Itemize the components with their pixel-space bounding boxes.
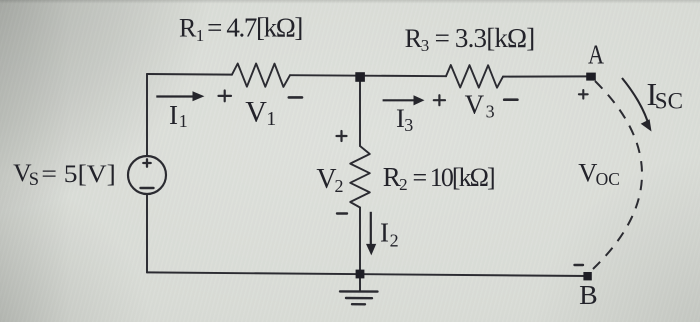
node junction top (R1/R3/R2) bbox=[355, 72, 365, 82]
label Isc bbox=[647, 76, 683, 114]
label Voc bbox=[578, 158, 620, 189]
dashed arc A to B bbox=[593, 81, 642, 269]
svg-text:3: 3 bbox=[421, 36, 430, 55]
resistor R1 bbox=[232, 64, 290, 87]
svg-text:I: I bbox=[380, 218, 389, 248]
V1 plus sign bbox=[219, 91, 232, 102]
svg-text:V: V bbox=[465, 90, 485, 120]
wire R2 branch upper bbox=[359, 77, 361, 147]
svg-text:= 3.3[kΩ]: = 3.3[kΩ] bbox=[435, 23, 536, 53]
voltage source VS circle bbox=[128, 156, 166, 194]
current arrow I1 bbox=[156, 91, 204, 101]
VS plus sign bbox=[143, 159, 150, 166]
current arrow I2 bbox=[366, 212, 376, 256]
svg-text:1: 1 bbox=[266, 108, 276, 130]
resistor R2 bbox=[350, 146, 370, 208]
svg-text:S: S bbox=[29, 170, 39, 190]
svg-text:I: I bbox=[169, 100, 178, 130]
wire R2 branch lower bbox=[359, 208, 361, 275]
label R1 = 4.7[kOhm] bbox=[179, 13, 303, 45]
wire top rail left bbox=[147, 73, 232, 76]
VS minus sign bbox=[141, 187, 154, 189]
wire left rail upper bbox=[146, 74, 148, 156]
node B minus sign bbox=[575, 264, 584, 266]
svg-text:SC: SC bbox=[655, 89, 683, 114]
resistor R3 bbox=[446, 65, 503, 88]
svg-text:= 4.7[kΩ]: = 4.7[kΩ] bbox=[207, 13, 303, 43]
label R3 = 3.3[kOhm] bbox=[405, 23, 536, 55]
ground bar 3 bbox=[352, 303, 365, 305]
ground bar 1 bbox=[340, 290, 378, 293]
svg-text:3: 3 bbox=[486, 102, 495, 122]
Isc arrow bbox=[622, 78, 652, 132]
wire top rail middle bbox=[290, 75, 446, 76]
svg-text:2: 2 bbox=[390, 231, 399, 251]
svg-text:= 10[kΩ]: = 10[kΩ] bbox=[413, 163, 496, 192]
ground bar 2 bbox=[346, 297, 372, 300]
wire bottom rail bbox=[147, 272, 588, 276]
wire top rail right bbox=[503, 75, 591, 77]
current arrow I3 bbox=[383, 95, 425, 105]
svg-text:1: 1 bbox=[179, 111, 188, 131]
label I2 bbox=[380, 218, 399, 251]
svg-text:B: B bbox=[579, 280, 598, 310]
svg-text:3: 3 bbox=[404, 115, 413, 135]
node A terminal bbox=[586, 73, 596, 81]
label I3 bbox=[396, 103, 413, 135]
svg-text:V: V bbox=[245, 96, 267, 129]
svg-text:2: 2 bbox=[399, 175, 408, 194]
V3 plus sign bbox=[434, 95, 445, 105]
svg-text:= 5[V]: = 5[V] bbox=[41, 159, 115, 188]
V1 minus sign bbox=[289, 96, 302, 99]
node B terminal bbox=[583, 272, 591, 280]
svg-text:A: A bbox=[588, 39, 604, 69]
node A plus sign bbox=[579, 90, 588, 99]
R2 plus sign bbox=[337, 131, 347, 141]
svg-text:1: 1 bbox=[196, 26, 205, 45]
label V2 bbox=[316, 164, 343, 196]
svg-text:OC: OC bbox=[596, 169, 620, 189]
label I1 bbox=[169, 100, 188, 131]
svg-text:R: R bbox=[179, 14, 197, 43]
svg-text:V: V bbox=[578, 158, 597, 188]
label V3 bbox=[465, 90, 495, 122]
svg-text:2: 2 bbox=[335, 176, 344, 196]
label V1 bbox=[245, 96, 276, 130]
label R2 = 10[kOhm] bbox=[383, 162, 496, 194]
node junction bottom (R2/ground) bbox=[356, 270, 365, 279]
ground stem bbox=[359, 274, 361, 291]
R2 minus sign bbox=[337, 212, 347, 214]
V3 minus sign bbox=[504, 98, 517, 101]
label VS = 5[V] bbox=[13, 158, 116, 190]
wire left rail lower bbox=[146, 194, 148, 272]
